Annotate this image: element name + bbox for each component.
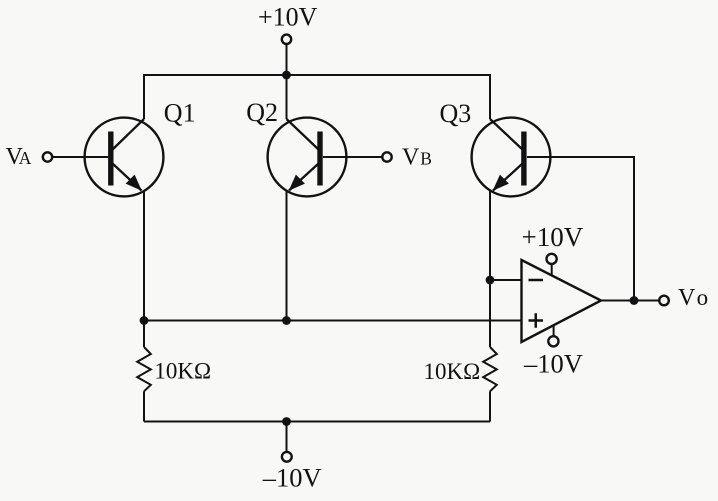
terminal op-amp +10V [547, 254, 557, 264]
transistor Q1 emitter arrow [126, 175, 142, 191]
svg-text:Q2: Q2 [246, 98, 278, 127]
wire Q1 emitter vertical down to plus line and resistor [143, 191, 145, 348]
svg-text:10KΩ: 10KΩ [424, 359, 481, 384]
resistor R2 zigzag [483, 347, 497, 391]
node junction dot at +10V tap / Q2 collector [282, 71, 291, 80]
transistor Q3 emitter diagonal [493, 164, 523, 191]
node junction dot at Q2 emitter / plus line [282, 316, 291, 325]
transistor Q2 collector diagonal [287, 119, 319, 150]
node junction dot at Q1 emitter / plus line [140, 316, 149, 325]
wire Q3 base feedback to output node [527, 157, 634, 301]
wire op-amp output [601, 300, 659, 302]
terminal op-amp -10V [548, 336, 558, 346]
transistor Q3 circle [472, 118, 551, 197]
terminal Vo [659, 296, 669, 306]
wire +10V stem [286, 45, 288, 75]
op-amp +10V supply stem [551, 264, 553, 275]
transistor Q2 circle [268, 118, 347, 197]
transistor Q1 emitter diagonal [113, 164, 142, 191]
op-amp plus symbol [529, 313, 544, 328]
wire bottom rail [144, 421, 490, 423]
wire op-amp inverting input [490, 279, 522, 281]
wire R1 bottom [143, 391, 145, 421]
wire R2 bottom [489, 391, 491, 421]
wire Q2 emitter vertical [286, 191, 288, 321]
transistor Q2 emitter diagonal [289, 164, 319, 191]
terminal -10V bottom [282, 452, 292, 462]
transistor Q1 circle [85, 118, 164, 197]
wire Q3 emitter vertical down through minus node to resistor [489, 191, 491, 348]
svg-text:Vo: Vo [678, 285, 708, 311]
svg-text:Q1: Q1 [164, 98, 196, 127]
resistor R1 zigzag [137, 347, 151, 391]
wire top rail with corners down to Q1 and Q3 collectors [144, 75, 490, 119]
svg-text:–10V: –10V [262, 463, 322, 493]
op-amp minus symbol [529, 279, 544, 282]
svg-text:+10V: +10V [258, 3, 318, 32]
transistor Q3 emitter arrow [493, 175, 509, 191]
node junction dot output feedback [630, 296, 639, 305]
svg-text:VA: VA [6, 144, 32, 170]
op-amp -10V supply stem [553, 325, 555, 336]
wire Q2 base lead to VB [323, 156, 382, 158]
terminal VB [382, 152, 391, 161]
node junction dot -10V tap [282, 417, 291, 426]
transistor Q1 collector diagonal [113, 119, 145, 150]
wire VA lead to Q1 base [53, 156, 108, 158]
wire long non-inverting line from Q1 emitter to op-amp [144, 320, 522, 322]
transistor Q2 emitter arrow [289, 175, 305, 191]
transistor Q1 base bar [108, 132, 113, 186]
svg-text:Q3: Q3 [440, 99, 472, 128]
svg-text:+10V: +10V [522, 222, 584, 252]
wire Q2 collector vertical [286, 75, 288, 119]
terminal +10V top [282, 35, 291, 44]
transistor Q3 collector diagonal [490, 119, 523, 150]
node junction dot minus input on Q3 emitter line [486, 276, 495, 285]
op-amp U1 triangle [522, 260, 602, 342]
svg-text:VB: VB [402, 145, 432, 171]
wire -10V stem [286, 422, 288, 452]
svg-text:–10V: –10V [523, 349, 583, 379]
transistor Q2 base bar [317, 132, 322, 186]
terminal VA [43, 152, 52, 161]
transistor Q3 base bar [521, 132, 526, 186]
svg-text:10KΩ: 10KΩ [154, 358, 211, 383]
